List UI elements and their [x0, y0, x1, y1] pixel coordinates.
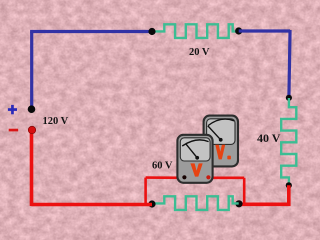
resistor R2 (60 V) — [152, 196, 239, 210]
battery - terminal dot — [28, 126, 35, 133]
U1 dial face — [180, 138, 210, 161]
wire: blue top-right horizontal — [239, 29, 290, 32]
node E (right of R2) — [235, 200, 242, 207]
battery + terminal dot — [28, 105, 36, 113]
U2 label V. — [215, 145, 225, 160]
U2 scale arc — [208, 119, 234, 125]
wire: red voltmeter lead horizontal (right part from meter terminal) — [209, 177, 245, 180]
wire: red bottom-left horizontal — [32, 203, 153, 207]
U1 body — [177, 135, 212, 183]
wire: red left vertical up to battery - — [30, 131, 34, 206]
wire: red bottom-right corner — [239, 185, 289, 204]
voltmeter U1 (front) — [177, 135, 212, 183]
svg-text:20 V: 20 V — [189, 47, 210, 58]
resistor R3 (40 V, vertical) — [281, 98, 296, 186]
U2 body — [204, 116, 238, 167]
U2 dial face — [207, 119, 235, 145]
svg-text:120 V: 120 V — [43, 116, 69, 127]
U1 needle — [186, 144, 198, 158]
wire: red voltmeter lead horizontal (left part to meter terminal) — [146, 176, 184, 179]
svg-text:40 V: 40 V — [257, 131, 281, 145]
plus symbol — [8, 105, 17, 114]
node B (junction dot right of R1) — [235, 27, 242, 34]
minus symbol — [9, 129, 19, 132]
voltmeter U2 (back) — [204, 116, 238, 167]
U1 scale arc — [182, 140, 208, 146]
U2 needle — [208, 126, 221, 140]
node D (bottom of R3) — [286, 182, 292, 188]
U1 left terminal — [182, 175, 186, 179]
resistor R1 (20 V) — [152, 24, 239, 38]
wire: blue top horizontal to node A — [30, 30, 152, 33]
wire: red voltmeter lead left vertical — [144, 178, 147, 204]
node F (left of R2) — [148, 200, 155, 207]
wire: red voltmeter lead right vertical — [243, 178, 246, 204]
svg-text:60 V: 60 V — [152, 161, 173, 172]
wire: blue right vertical down to node C — [289, 30, 290, 98]
U1 label V — [190, 163, 202, 176]
U1 right terminal — [206, 175, 210, 179]
node A (junction dot left of R1) — [148, 28, 155, 35]
wire: blue left vertical (battery + to top-left corner) — [30, 32, 33, 109]
node C (top of R3) — [286, 95, 292, 101]
